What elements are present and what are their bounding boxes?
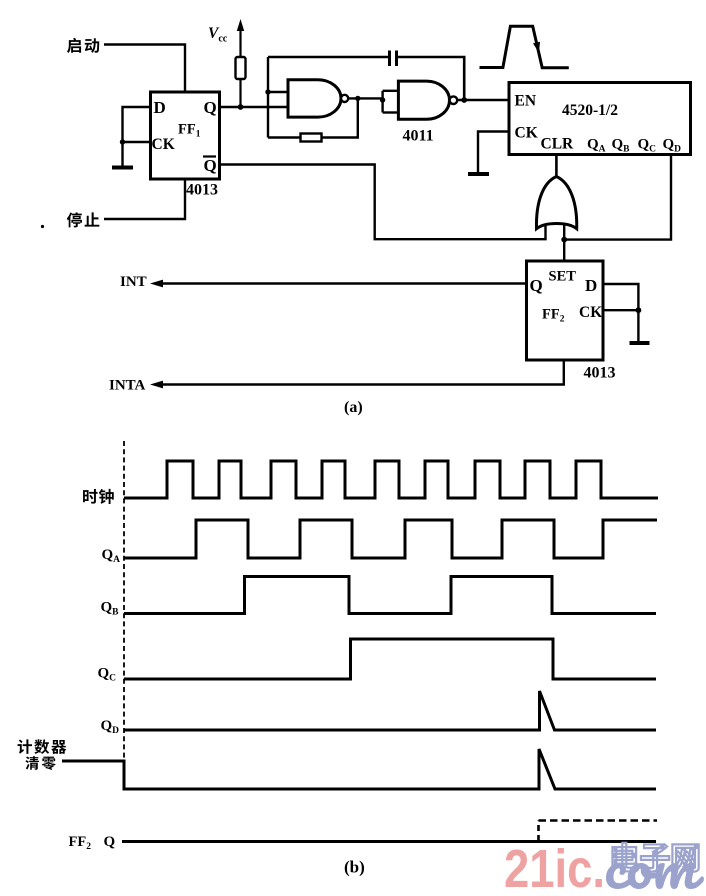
svg-text:Q: Q <box>204 98 217 117</box>
svg-text:CK: CK <box>152 136 175 153</box>
svg-text:4011: 4011 <box>403 128 434 145</box>
svg-text:Q: Q <box>530 276 543 295</box>
svg-text:CLR: CLR <box>541 136 575 153</box>
svg-text:EN: EN <box>515 93 537 110</box>
svg-text:4013: 4013 <box>584 365 616 382</box>
svg-text:CK: CK <box>579 304 602 321</box>
svg-text:CK: CK <box>515 125 538 142</box>
svg-text:4520-1/2: 4520-1/2 <box>562 102 618 119</box>
svg-text:SET: SET <box>549 269 577 285</box>
svg-text:21ic.: 21ic. <box>504 839 605 891</box>
svg-text:D: D <box>154 98 166 117</box>
svg-text:D: D <box>585 276 597 295</box>
svg-text:(a): (a) <box>344 399 363 416</box>
svg-text:(b): (b) <box>344 858 365 877</box>
svg-text:Q: Q <box>104 834 116 850</box>
svg-text:INT: INT <box>120 274 147 290</box>
svg-text:INTA: INTA <box>109 378 146 394</box>
svg-text:4013: 4013 <box>186 182 218 199</box>
svg-text:Q: Q <box>204 156 217 175</box>
